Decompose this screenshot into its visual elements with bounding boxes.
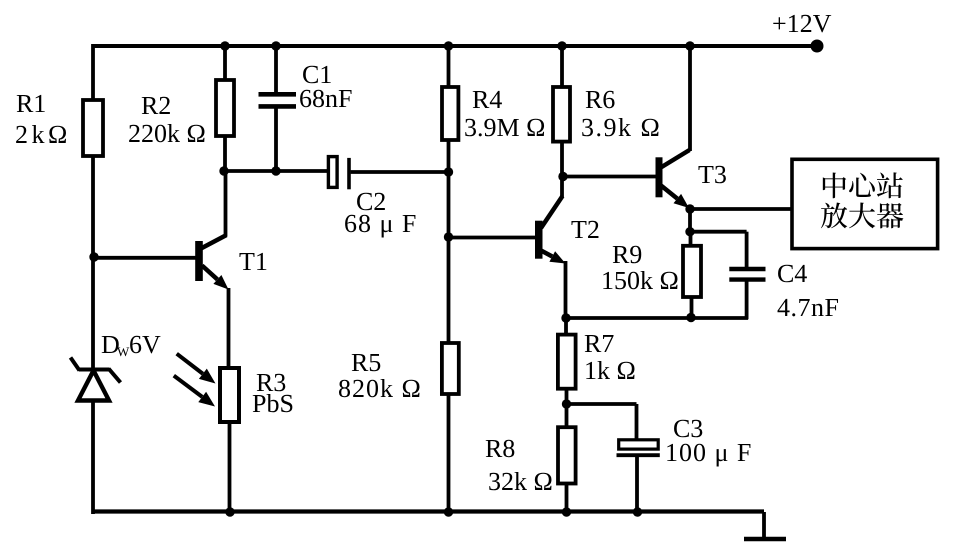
label C4 value xyxy=(778,299,839,316)
capacitor C2 xyxy=(328,157,349,190)
resistor R3 (PbS) xyxy=(220,368,239,422)
label R8 value xyxy=(489,472,551,490)
resistor R2 xyxy=(216,80,234,136)
wire T3e to box xyxy=(690,207,792,211)
power terminal +12V xyxy=(811,40,824,53)
wire R9 bottom lead xyxy=(690,297,694,318)
label C2 xyxy=(357,193,385,210)
wire R7 top lead xyxy=(564,318,568,335)
label R8 xyxy=(486,440,515,458)
node R9 top junction xyxy=(685,227,694,236)
amplifier box xyxy=(792,159,938,248)
label R9 xyxy=(613,246,641,263)
label R3 PbS xyxy=(253,394,293,412)
wire R4 bottom lead xyxy=(447,140,451,172)
resistor R7 xyxy=(558,335,576,389)
resistor R1 xyxy=(83,100,103,156)
wire to C3 xyxy=(567,402,637,406)
label T2 xyxy=(571,221,598,238)
wire R3 bottom lead xyxy=(228,422,232,512)
wire T3e down xyxy=(688,209,692,232)
box text line2 放大器 xyxy=(821,202,903,228)
capacitor C3 xyxy=(617,440,660,455)
transistor T2 base bar xyxy=(535,221,543,259)
label R3 xyxy=(257,374,286,391)
wire R9 top lead xyxy=(689,232,693,246)
wire C1 top lead xyxy=(274,46,278,93)
wire left rail lower xyxy=(91,400,95,514)
node R3-rail xyxy=(225,507,234,516)
node rail-T3 xyxy=(685,41,694,50)
resistor R6 xyxy=(553,87,570,142)
wire C4 top lead xyxy=(745,232,749,267)
wire T2 base xyxy=(449,236,539,240)
label R5 xyxy=(352,354,381,371)
node rail-C1 xyxy=(271,41,280,50)
wire R4-R5 link xyxy=(447,172,451,343)
node rail-R4 xyxy=(444,41,453,50)
transistor T1 emitter xyxy=(202,266,229,290)
wire T3 collector diagonal xyxy=(660,150,690,168)
capacitor C1 xyxy=(259,94,297,106)
wire R8 top lead xyxy=(565,404,569,428)
transistor T2 emitter xyxy=(541,251,566,264)
wire R5 bottom lead xyxy=(447,394,451,512)
ground xyxy=(744,512,786,539)
label R4 xyxy=(473,91,502,108)
wire T3 base row xyxy=(562,175,656,179)
wire C2 to R4 xyxy=(351,170,450,174)
wire T1 emitter vertical xyxy=(227,288,231,369)
label R2 xyxy=(142,97,170,114)
node C1 bottom xyxy=(271,166,280,175)
label C3 value xyxy=(667,444,750,467)
transistor T3 base bar xyxy=(656,157,663,197)
node R2-C2 junction xyxy=(219,166,228,175)
node C2-R4 junction xyxy=(444,167,453,176)
resistor R4 xyxy=(442,87,458,140)
label C2 value xyxy=(345,215,415,238)
label C3 xyxy=(674,420,702,437)
light arrow 2 (photo) xyxy=(174,376,215,407)
node R5-rail xyxy=(444,507,453,516)
wire left rail upper (R1 top lead) xyxy=(91,44,95,101)
label R7 xyxy=(585,335,614,352)
wire T2 collector vertical xyxy=(560,176,564,197)
wire T1 collector diagonal xyxy=(200,235,227,249)
wire R9C4 bottom row xyxy=(566,316,748,320)
label R5 value xyxy=(339,379,419,397)
label R1 xyxy=(17,95,45,112)
wire T1 collector vertical xyxy=(224,171,228,236)
label C1 xyxy=(303,66,331,83)
label R6 value xyxy=(582,118,658,136)
label C4 xyxy=(778,265,807,282)
wire T1 base xyxy=(93,256,199,260)
node T2 base junction xyxy=(444,232,453,241)
zener diode DW triangle xyxy=(78,371,109,401)
node R9 bottom junction xyxy=(686,313,695,322)
capacitor C4 xyxy=(729,269,765,280)
resistor R9 xyxy=(683,246,701,297)
node R7-R8 junction xyxy=(562,399,571,408)
node T2e junction xyxy=(561,313,570,322)
wire R2 bottom lead xyxy=(223,136,227,171)
label R1 value xyxy=(16,125,66,143)
light arrow 1 (photo) xyxy=(177,354,216,384)
wire C3 bottom lead xyxy=(635,455,639,512)
box text line1 中心站 xyxy=(823,172,903,198)
resistor R8 xyxy=(558,427,576,483)
resistor R5 xyxy=(442,343,459,394)
wire left rail middle xyxy=(91,156,95,370)
label T3 xyxy=(698,166,725,183)
wire bottom rail xyxy=(93,509,764,513)
wire R2 top lead xyxy=(223,46,227,81)
label C1 value xyxy=(300,90,351,108)
wire R4 top lead xyxy=(447,46,451,88)
node R8-rail xyxy=(562,507,571,516)
node R6-T3 base junction xyxy=(558,172,567,181)
zener diode DW bar xyxy=(71,358,121,383)
wire R9-C4 top row xyxy=(690,230,747,234)
wire T2 emitter vertical xyxy=(564,261,568,318)
label R6 xyxy=(586,91,615,108)
node T3 emitter xyxy=(685,204,694,213)
transistor T3 emitter xyxy=(661,186,689,209)
node base T1 junction xyxy=(89,252,98,261)
node rail-R6 xyxy=(557,41,566,50)
label R9 value xyxy=(603,271,677,289)
node C3-rail xyxy=(633,507,642,516)
wire C4 bottom lead xyxy=(745,280,749,319)
label DW 6V xyxy=(102,336,161,356)
label R7 value xyxy=(586,361,634,379)
wire R8 bottom lead xyxy=(565,484,569,513)
label +12V xyxy=(773,15,831,33)
wire R7 bottom lead xyxy=(565,389,569,404)
wire R6 top lead xyxy=(560,46,564,88)
label R2 value xyxy=(129,124,204,142)
wire C3 top lead xyxy=(635,404,639,440)
wire T2 collector diagonal xyxy=(541,196,563,228)
wire T3 collector vertical xyxy=(688,46,692,151)
wire C1 bottom row xyxy=(224,169,329,173)
wire R6 bottom lead xyxy=(560,142,564,176)
node rail-R2 xyxy=(220,41,229,50)
wire top +12V rail xyxy=(93,44,817,48)
transistor T1 base bar xyxy=(195,241,203,281)
label R4 value xyxy=(465,119,544,137)
label T1 xyxy=(239,253,266,270)
wire C1 lower lead xyxy=(274,108,278,171)
